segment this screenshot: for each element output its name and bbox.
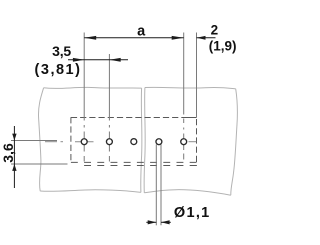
svg-text:3,5: 3,5 <box>52 43 71 59</box>
svg-text:(1,9): (1,9) <box>209 38 237 53</box>
svg-text:a: a <box>137 24 146 40</box>
svg-text:2: 2 <box>211 23 219 38</box>
svg-text:(3,81): (3,81) <box>35 62 82 78</box>
svg-text:3,6: 3,6 <box>0 143 16 163</box>
svg-text:Ø1,1: Ø1,1 <box>174 205 211 221</box>
